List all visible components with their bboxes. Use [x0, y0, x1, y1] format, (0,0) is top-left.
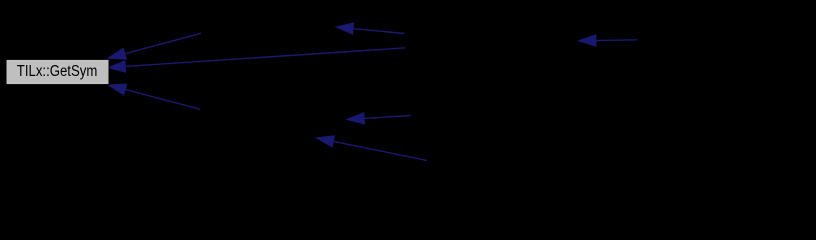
edge B to A: [337, 23, 405, 34]
node TILx::GetSym (current function, grey box): [6, 59, 109, 84]
svg-text:TILx::GetSym: TILx::GetSym: [17, 63, 98, 80]
edge A to GetSym: [109, 33, 201, 59]
edge G to D: [348, 113, 412, 124]
edge C to B: [579, 35, 637, 46]
edge D to GetSym: [109, 84, 200, 109]
edge B to GetSym: [109, 48, 406, 72]
edge I to H: [317, 136, 427, 161]
